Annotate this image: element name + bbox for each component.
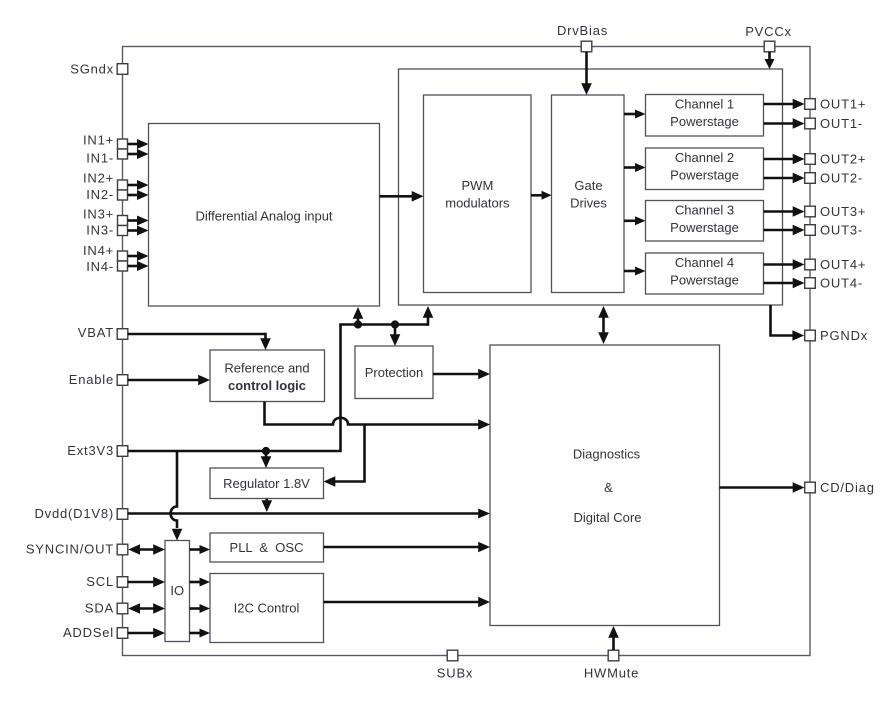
- svg-text:OUT3-: OUT3-: [820, 223, 863, 238]
- pin SDA: [85, 601, 128, 616]
- wire IO to I2C (ADDSel): [190, 629, 211, 638]
- pin OUT3-: [805, 223, 863, 238]
- wire IO to I2C (SDA): [190, 604, 211, 613]
- svg-text:Powerstage: Powerstage: [670, 168, 739, 183]
- svg-text:SYNCIN/OUT: SYNCIN/OUT: [26, 542, 114, 557]
- svg-text:SDA: SDA: [85, 601, 114, 616]
- svg-text:IN3+: IN3+: [83, 207, 114, 222]
- svg-text:Powerstage: Powerstage: [670, 273, 739, 288]
- svg-text:IN4-: IN4-: [86, 259, 114, 274]
- wire SDA to IO (bidirectional): [128, 603, 165, 614]
- svg-text:IN2-: IN2-: [86, 187, 114, 202]
- svg-text:OUT1-: OUT1-: [820, 116, 863, 131]
- svg-text:Powerstage: Powerstage: [670, 220, 739, 235]
- block: I2C Control: [210, 574, 324, 643]
- svg-text:Powerstage: Powerstage: [670, 114, 739, 129]
- svg-text:SUBx: SUBx: [437, 666, 473, 681]
- svg-text:Drives: Drives: [570, 196, 607, 211]
- pin OUT4+: [805, 257, 867, 272]
- block: PWM modulators: [424, 95, 532, 293]
- svg-text:IN2+: IN2+: [83, 171, 114, 186]
- svg-text:Enable: Enable: [69, 372, 114, 387]
- wire power section to Diagnostics (bidirectional): [598, 306, 609, 344]
- wire bus to Protection top: [390, 325, 401, 347]
- wire Gate Drives to Channel 3: [624, 216, 646, 225]
- svg-text:CD/Diag: CD/Diag: [820, 480, 875, 495]
- wire Gate Drives to Channel 2: [624, 163, 646, 172]
- pin ADDSel: [63, 625, 128, 640]
- wire Ext3V3 line: [128, 325, 341, 452]
- svg-text:Channel 4: Channel 4: [675, 255, 734, 270]
- pin OUT1-: [805, 116, 863, 131]
- wire bus to power section bottom: [423, 306, 434, 318]
- pin Ext3V3: [67, 443, 128, 458]
- svg-text:OUT2-: OUT2-: [820, 171, 863, 186]
- svg-text:OUT4-: OUT4-: [820, 276, 863, 291]
- wire Gate Drives to Channel 1: [624, 110, 646, 119]
- wire Regulator to Dvdd line: [262, 499, 273, 513]
- svg-text:Channel 2: Channel 2: [675, 150, 734, 165]
- block: Channel 4 Powerstage: [646, 253, 764, 294]
- svg-text:OUT1+: OUT1+: [820, 97, 866, 112]
- block: Reference and control logic: [210, 350, 325, 402]
- wire Gate Drives to Channel 4: [624, 267, 646, 276]
- svg-text:ADDSel: ADDSel: [63, 625, 114, 640]
- svg-text:Channel 3: Channel 3: [675, 203, 734, 218]
- junction Ext3V3/Regulator: [262, 447, 270, 455]
- wire OUT2- output arrow: [764, 173, 805, 184]
- block: Diagnostics and Digital Core: [490, 345, 720, 626]
- pin OUT2-: [805, 171, 863, 186]
- block: Channel 3 Powerstage: [646, 201, 764, 242]
- wire IN1+ input arrow: [128, 139, 149, 149]
- pin SUBx: [437, 650, 473, 680]
- wire SCL to IO: [128, 577, 165, 588]
- wire IN2+ input arrow: [128, 180, 149, 190]
- svg-text:Regulator 1.8V: Regulator 1.8V: [223, 476, 310, 491]
- wire PVCCx into power section: [765, 52, 775, 69]
- power section box: [399, 69, 783, 305]
- svg-text:HWMute: HWMute: [584, 666, 639, 681]
- pin CD/Diag: [805, 480, 875, 495]
- wire OUT3+ output arrow: [764, 206, 805, 217]
- block: Gate Drives: [552, 95, 625, 293]
- wire OUT3- output arrow: [764, 225, 805, 236]
- wire OUT2+ output arrow: [764, 154, 805, 165]
- block: PLL &amp; OSC: [210, 533, 324, 562]
- pin PVCCx: [745, 24, 792, 52]
- wire VBAT to Reference: [128, 333, 271, 350]
- svg-text:SCL: SCL: [86, 574, 114, 589]
- outer boundary box: [123, 47, 811, 656]
- svg-text:PLL & OSC: PLL & OSC: [230, 540, 304, 555]
- pin IN1-: [86, 149, 127, 166]
- pin OUT1+: [805, 97, 867, 112]
- pin IN2-: [86, 187, 127, 202]
- pin IN3-: [86, 223, 127, 238]
- svg-text:OUT3+: OUT3+: [820, 204, 866, 219]
- svg-text:Channel 1: Channel 1: [675, 97, 734, 112]
- wire IO to PLL: [190, 545, 211, 554]
- pin VBAT: [78, 325, 128, 340]
- svg-text:Reference and: Reference and: [224, 361, 309, 376]
- wire Ext3V3 branch to IO with hop over Dvdd: [171, 452, 183, 541]
- wire OUT4- output arrow: [764, 278, 805, 289]
- block: Channel 2 Powerstage: [646, 148, 764, 190]
- svg-text:DrvBias: DrvBias: [557, 23, 608, 38]
- pin IN4-: [86, 259, 127, 274]
- svg-text:Protection: Protection: [365, 365, 424, 380]
- wire Dvdd line to Diagnostics: [128, 509, 490, 519]
- svg-text:PWM: PWM: [462, 178, 494, 193]
- pin DrvBias: [557, 23, 608, 52]
- svg-text:IN4+: IN4+: [83, 243, 114, 258]
- wire power section to PGNDx: [771, 305, 805, 341]
- wire IN3- input arrow: [128, 226, 149, 236]
- svg-text:Differential Analog input: Differential Analog input: [195, 209, 332, 224]
- svg-text:PVCCx: PVCCx: [745, 24, 792, 39]
- pin OUT3+: [805, 204, 867, 219]
- block: Protection: [355, 346, 433, 399]
- svg-text:Dvdd(D1V8): Dvdd(D1V8): [34, 506, 114, 521]
- pin HWMute: [584, 650, 639, 680]
- pin IN1+: [83, 133, 128, 150]
- block: Regulator 1.8V: [210, 468, 324, 499]
- pin IN2+: [83, 171, 128, 191]
- wire Diagnostics to CD/Diag: [720, 482, 805, 493]
- wire IN4- input arrow: [128, 261, 149, 271]
- wire I2C to Diagnostics: [324, 597, 491, 608]
- wire OUT1- output arrow: [764, 118, 805, 129]
- svg-text:PGNDx: PGNDx: [820, 328, 868, 343]
- pin IN3+: [83, 207, 128, 226]
- svg-text:&: &: [604, 480, 613, 495]
- wire Reference output to Diagnostics with hop: [265, 402, 491, 430]
- wire PWM to Gate Drives: [531, 191, 552, 200]
- wire IN2- input arrow: [128, 190, 149, 200]
- svg-text:VBAT: VBAT: [78, 325, 114, 340]
- wire Differential to PWM: [380, 191, 424, 202]
- pin PGNDx: [805, 328, 868, 343]
- svg-text:OUT4+: OUT4+: [820, 257, 866, 272]
- wire IO to I2C (SCL): [190, 578, 211, 587]
- wire SYNCIN/OUT to IO (bidirectional): [128, 544, 165, 555]
- svg-text:Diagnostics: Diagnostics: [573, 447, 641, 462]
- wire IN1- input arrow: [128, 149, 149, 159]
- block: Differential Analog input: [149, 124, 380, 307]
- svg-text:IN3-: IN3-: [86, 223, 114, 238]
- svg-text:Digital Core: Digital Core: [574, 510, 642, 525]
- pin IN4+: [83, 243, 128, 261]
- wire branch to Regulator input: [324, 425, 365, 487]
- wire OUT1+ output arrow: [764, 99, 805, 110]
- svg-text:IN1+: IN1+: [83, 133, 114, 148]
- wire DrvBias to Gate Drives: [581, 52, 592, 95]
- pin Enable: [69, 372, 128, 387]
- pin OUT2+: [805, 152, 867, 167]
- svg-text:control logic: control logic: [228, 378, 306, 393]
- svg-text:OUT2+: OUT2+: [820, 152, 866, 167]
- svg-text:Ext3V3: Ext3V3: [67, 443, 114, 458]
- wire ADDSel to IO: [128, 628, 165, 639]
- pin Dvdd(D1V8): [34, 506, 127, 521]
- wire HWMute to Diagnostics: [608, 626, 619, 650]
- wire Enable to Reference: [128, 375, 210, 386]
- svg-text:SGndx: SGndx: [70, 62, 114, 77]
- block: Channel 1 Powerstage: [646, 95, 764, 137]
- block: IO: [165, 541, 190, 642]
- svg-text:modulators: modulators: [445, 196, 510, 211]
- svg-text:IO: IO: [170, 583, 184, 598]
- svg-text:IN1-: IN1-: [86, 151, 114, 166]
- pin SYNCIN/OUT: [26, 542, 128, 557]
- wire Protection to Diagnostics: [433, 369, 490, 380]
- wire IN3+ input arrow: [128, 216, 149, 226]
- pin OUT4-: [805, 276, 863, 291]
- wire OUT4+ output arrow: [764, 259, 805, 270]
- junction bus/Protection: [391, 320, 399, 328]
- wire bus to Differential bottom: [353, 307, 364, 323]
- pin SCL: [86, 574, 128, 589]
- wire PLL to Diagnostics: [324, 542, 491, 553]
- analog supply bus: [339, 316, 428, 326]
- svg-text:I2C Control: I2C Control: [234, 601, 300, 616]
- wire Ext3V3 to Regulator top: [261, 452, 272, 468]
- svg-text:Gate: Gate: [574, 178, 602, 193]
- pin SGndx: [70, 62, 128, 77]
- junction bus/Differential: [354, 320, 362, 328]
- wire IN4+ input arrow: [128, 251, 149, 261]
